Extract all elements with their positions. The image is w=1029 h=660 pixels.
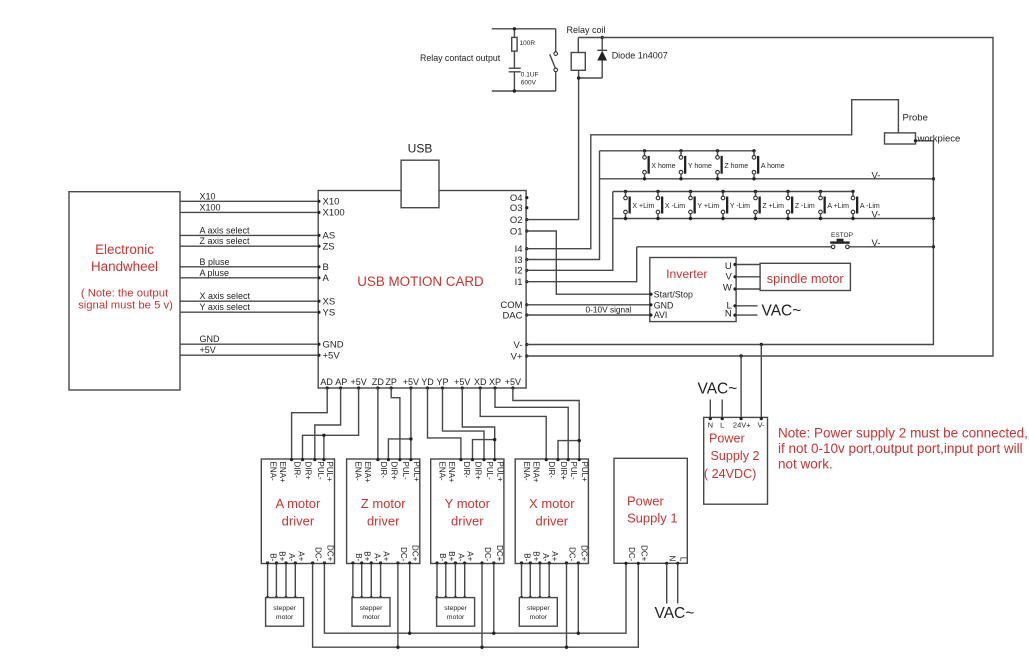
- svg-text:AP: AP: [335, 377, 347, 387]
- svg-text:XD: XD: [474, 377, 487, 387]
- svg-text:motor: motor: [362, 614, 380, 621]
- card right pin labels: [500, 193, 523, 362]
- svg-text:ENA+: ENA+: [363, 462, 372, 483]
- svg-text:not work.: not work.: [778, 457, 833, 472]
- svg-text:N: N: [725, 309, 732, 320]
- svg-text:Power: Power: [627, 494, 665, 509]
- USB connector: [401, 160, 439, 208]
- svg-text:DAC: DAC: [502, 310, 522, 321]
- svg-text:DIR-: DIR-: [462, 462, 471, 479]
- svg-text:USB: USB: [408, 142, 433, 156]
- card bottom pin row labels AD AP +5V ZD ZP +5V YD YP +5V XD XP +5V: [320, 377, 521, 387]
- wire Y driver DC+ to rail: [493, 564, 495, 634]
- wire GND: [180, 343, 318, 345]
- svg-text:DC+: DC+: [325, 545, 334, 562]
- wire O1 to inverter Start/Stop: [526, 231, 650, 294]
- wire +5V to Z driver DIR+/PUL+: [410, 388, 412, 459]
- svg-text:A-: A-: [456, 553, 465, 561]
- wire PS1 L: [677, 563, 679, 603]
- wire V- net: [526, 141, 933, 345]
- wire N: [736, 314, 757, 316]
- svg-text:motor: motor: [276, 614, 294, 621]
- svg-text:PUL+: PUL+: [496, 462, 505, 483]
- svg-text:DC+: DC+: [495, 545, 504, 562]
- wire V+ net: [526, 38, 993, 357]
- svg-text:A: A: [323, 273, 330, 284]
- svg-text:A home: A home: [761, 163, 785, 170]
- wire bottom of relay contact: [492, 90, 556, 92]
- svg-text:Supply 2: Supply 2: [711, 449, 760, 463]
- wire PS2 24V+ to V+: [740, 356, 742, 417]
- svg-text:+5V: +5V: [200, 345, 216, 355]
- svg-text:AD: AD: [320, 377, 333, 387]
- wire X10: [180, 200, 318, 202]
- svg-text:if not 0-10v port,output port,: if not 0-10v port,output port,input port…: [778, 441, 1023, 456]
- label: red note: [778, 426, 1028, 472]
- svg-text:Z motor: Z motor: [361, 496, 406, 511]
- motor driver X: [515, 458, 589, 565]
- svg-text:+5V: +5V: [505, 377, 521, 387]
- svg-text:Z home: Z home: [724, 163, 748, 170]
- wire DC+ rail (upper): [324, 563, 626, 633]
- svg-text:ENA+: ENA+: [447, 462, 456, 483]
- svg-text:driver: driver: [536, 514, 569, 529]
- junction dot PS2 V- on V-: [760, 343, 763, 346]
- resistor 100R: [512, 29, 536, 51]
- wire X driver DC+ to rail: [577, 564, 579, 634]
- svg-text:VAC~: VAC~: [655, 605, 695, 622]
- card left pin dots: [317, 200, 320, 357]
- svg-text:24V+: 24V+: [733, 420, 751, 429]
- spindle motor: [760, 263, 850, 290]
- svg-text:B+: B+: [447, 551, 456, 561]
- svg-text:100R: 100R: [520, 40, 536, 47]
- svg-text:DIR-: DIR-: [293, 462, 302, 479]
- node junction dots on snubber branch: [513, 27, 516, 30]
- svg-text:V: V: [725, 271, 732, 282]
- switch Y home: [679, 149, 712, 180]
- wire PS2 N: [709, 400, 711, 418]
- wire ZD to Z driver DIR-: [377, 388, 379, 459]
- wire X100: [180, 211, 318, 213]
- switch Y +Lim: [689, 190, 720, 220]
- svg-text:B-: B-: [354, 553, 363, 561]
- svg-text:A pluse: A pluse: [200, 268, 230, 278]
- motor driver Y: [431, 458, 505, 565]
- svg-text:GND: GND: [323, 339, 344, 350]
- svg-text:( Note: the output: ( Note: the output: [81, 288, 169, 300]
- svg-text:driver: driver: [367, 514, 400, 529]
- svg-text:V-: V-: [872, 238, 881, 249]
- svg-text:workpiece: workpiece: [917, 134, 961, 145]
- svg-text:DIR+: DIR+: [304, 462, 313, 481]
- wire +5V: [180, 354, 318, 356]
- svg-text:DC-: DC-: [627, 547, 636, 562]
- wire I1 to ESTOP: [526, 247, 637, 282]
- svg-text:X home: X home: [651, 163, 675, 170]
- wire ZP to Z driver PUL-: [391, 388, 400, 459]
- svg-text:A +Lim: A +Lim: [827, 203, 849, 210]
- svg-text:A-: A-: [372, 553, 381, 561]
- svg-text:Note: Power supply 2 must be c: Note: Power supply 2 must be connected,: [778, 426, 1028, 441]
- svg-text:PUL+: PUL+: [412, 462, 421, 483]
- svg-text:Y +Lim: Y +Lim: [697, 203, 719, 210]
- svg-text:Z -Lim: Z -Lim: [795, 203, 815, 210]
- wire X axis select: [180, 300, 318, 302]
- wire home row top rail: [600, 150, 755, 152]
- svg-text:L: L: [679, 557, 688, 562]
- svg-text:0-10V signal: 0-10V signal: [586, 305, 632, 315]
- svg-text:USB MOTION CARD: USB MOTION CARD: [357, 274, 484, 289]
- workpiece block: [885, 133, 916, 144]
- switch A +Lim: [819, 190, 849, 220]
- wire PS1 N: [666, 563, 668, 603]
- svg-text:600V: 600V: [521, 80, 537, 87]
- svg-text:A+: A+: [550, 551, 559, 561]
- svg-text:B-: B-: [269, 553, 278, 561]
- svg-text:Power: Power: [709, 432, 745, 446]
- wire Y axis select: [180, 311, 318, 313]
- svg-text:DC-: DC-: [314, 547, 323, 562]
- svg-text:ENA-: ENA-: [268, 462, 277, 481]
- junction dot PS2 24V+ on V+: [739, 354, 742, 357]
- wire +5V to A driver DIR+/PUL+: [303, 388, 359, 459]
- svg-text:N: N: [708, 420, 713, 429]
- junction dot relay coil bottom node: [577, 76, 580, 79]
- wire PS2 L: [721, 400, 723, 418]
- wire V: [736, 276, 760, 278]
- svg-text:0.1UF: 0.1UF: [521, 72, 539, 79]
- motor driver A: [261, 458, 334, 565]
- svg-text:V-: V-: [872, 210, 881, 221]
- svg-text:I1: I1: [515, 277, 523, 288]
- stepper motor (X axis) wires: [520, 564, 551, 600]
- svg-text:A+: A+: [466, 551, 475, 561]
- inverter pin dots: [649, 263, 736, 317]
- svg-text:GND: GND: [654, 300, 674, 310]
- svg-text:Relay coil: Relay coil: [567, 25, 606, 35]
- motor driver Z: [347, 458, 421, 565]
- svg-text:Y axis select: Y axis select: [200, 302, 251, 312]
- wire Z axis select: [180, 245, 318, 247]
- svg-text:Y motor: Y motor: [445, 496, 491, 511]
- diode D1 1n4007: [579, 38, 608, 79]
- wire DAC to inverter AVI (0-10V signal): [526, 314, 650, 316]
- wire XP to X driver PUL-: [495, 388, 568, 459]
- svg-text:O3: O3: [510, 203, 523, 214]
- wire L: [736, 305, 757, 307]
- relay contact switch: [550, 29, 558, 91]
- wire A pluse: [180, 277, 318, 279]
- svg-text:DIR+: DIR+: [389, 462, 398, 481]
- svg-text:motor: motor: [530, 614, 548, 621]
- svg-text:W: W: [723, 283, 732, 294]
- wire +5V to Y driver DIR+/PUL+: [462, 388, 494, 459]
- svg-text:X +Lim: X +Lim: [632, 203, 654, 210]
- wire PS2 V- to V-: [760, 345, 762, 418]
- svg-text:DC-: DC-: [483, 547, 492, 562]
- svg-text:X motor: X motor: [529, 496, 575, 511]
- stepper motor (X axis): [519, 598, 557, 627]
- wire YP to Y driver PUL-: [443, 388, 485, 459]
- wire Z driver DC- to rail: [397, 564, 399, 648]
- svg-text:DC+: DC+: [579, 545, 588, 562]
- svg-text:XS: XS: [323, 296, 336, 307]
- svg-text:A+: A+: [296, 551, 305, 561]
- svg-text:ZS: ZS: [323, 241, 335, 252]
- svg-text:X10: X10: [200, 191, 216, 201]
- svg-text:GND: GND: [200, 334, 221, 344]
- switch A home: [752, 149, 785, 180]
- svg-text:Y -Lim: Y -Lim: [730, 203, 750, 210]
- svg-text:stepper: stepper: [527, 605, 550, 612]
- svg-text:YD: YD: [421, 377, 434, 387]
- wire AP to A driver PUL-: [315, 388, 341, 459]
- wire Z driver DC+ to rail: [409, 564, 411, 634]
- wire AD to A driver DIR-: [292, 388, 328, 459]
- svg-text:( 24VDC): ( 24VDC): [704, 467, 756, 481]
- svg-text:Z axis select: Z axis select: [200, 236, 251, 246]
- capacitor 0.1UF 600V: [509, 51, 539, 91]
- svg-text:B-: B-: [523, 553, 532, 561]
- svg-text:I4: I4: [515, 244, 523, 255]
- svg-text:DIR+: DIR+: [474, 462, 483, 481]
- svg-text:X100: X100: [200, 202, 221, 212]
- switch X home: [643, 149, 676, 180]
- wire top of relay contact: [492, 28, 556, 30]
- junction dot diode top on V+ rail: [601, 36, 604, 39]
- wire X driver DC- to rail: [566, 564, 568, 648]
- svg-text:Start/Stop: Start/Stop: [654, 290, 693, 300]
- svg-text:DC-: DC-: [568, 547, 577, 562]
- svg-text:X100: X100: [323, 208, 345, 219]
- svg-text:AS: AS: [323, 231, 336, 242]
- svg-text:B pluse: B pluse: [200, 257, 230, 267]
- card left pin labels: [323, 196, 345, 361]
- stepper motor (Z axis): [352, 598, 390, 627]
- wire +5V to X driver DIR+/PUL+: [513, 388, 579, 459]
- svg-text:XP: XP: [489, 377, 501, 387]
- svg-text:Relay contact output: Relay contact output: [420, 53, 501, 63]
- wire home row bottom rail (V-): [600, 178, 934, 180]
- svg-text:B+: B+: [277, 551, 286, 561]
- svg-text:B: B: [323, 262, 329, 273]
- svg-text:PUL+: PUL+: [325, 462, 334, 483]
- svg-text:DIR-: DIR-: [379, 462, 388, 479]
- svg-text:Y home: Y home: [688, 163, 712, 170]
- svg-text:O1: O1: [510, 226, 523, 237]
- PS2 pin dots: [709, 417, 763, 420]
- svg-text:ENA+: ENA+: [532, 462, 541, 483]
- svg-text:X axis select: X axis select: [200, 291, 251, 301]
- stepper motor (A axis) wires: [266, 564, 297, 600]
- svg-text:ENA-: ENA-: [522, 462, 531, 481]
- svg-text:V-: V-: [514, 340, 523, 351]
- wire I2 to limit switch row: [526, 192, 613, 271]
- switch Z -Lim: [786, 190, 815, 220]
- svg-text:Supply 1: Supply 1: [627, 511, 678, 526]
- svg-text:DC+: DC+: [411, 545, 420, 562]
- svg-text:Diode 1n4007: Diode 1n4007: [612, 51, 668, 61]
- card right pin dots: [525, 196, 528, 358]
- svg-text:+5V: +5V: [454, 377, 470, 387]
- stepper motor (Z axis) wires: [351, 564, 382, 600]
- svg-text:B+: B+: [363, 551, 372, 561]
- svg-text:AVI: AVI: [654, 310, 668, 320]
- switch X -Lim: [656, 190, 685, 220]
- svg-text:DIR+: DIR+: [559, 462, 568, 481]
- svg-text:YP: YP: [436, 377, 448, 387]
- svg-text:U: U: [725, 261, 732, 272]
- switch ESTOP: [830, 232, 853, 249]
- svg-text:A-: A-: [287, 553, 296, 561]
- wire I1/ESTOP rail to V-: [637, 246, 832, 248]
- svg-text:ENA-: ENA-: [354, 462, 363, 481]
- switch Z +Lim: [754, 190, 784, 220]
- switch Z home: [716, 149, 749, 180]
- svg-text:PUL+: PUL+: [580, 462, 589, 483]
- wire DC- rail (lower): [313, 563, 639, 647]
- svg-text:driver: driver: [282, 514, 315, 529]
- svg-text:ZP: ZP: [385, 377, 397, 387]
- wire I4 to probe: [526, 100, 898, 249]
- svg-text:DC-: DC-: [399, 547, 408, 562]
- svg-text:PUL-: PUL-: [485, 462, 494, 481]
- svg-text:O2: O2: [510, 215, 523, 226]
- card bottom pin dots: [326, 386, 515, 389]
- svg-text:DIR-: DIR-: [547, 462, 556, 479]
- svg-text:I3: I3: [515, 255, 523, 266]
- svg-text:V+: V+: [511, 351, 523, 362]
- svg-text:X10: X10: [323, 196, 340, 207]
- switch X +Lim: [624, 190, 655, 220]
- svg-text:X -Lim: X -Lim: [665, 203, 685, 210]
- wire limit row bottom rail (V-): [613, 218, 934, 220]
- svg-text:Probe: Probe: [903, 113, 928, 124]
- svg-text:+5V: +5V: [350, 377, 366, 387]
- svg-text:VAC~: VAC~: [698, 381, 738, 398]
- svg-text:A axis select: A axis select: [200, 225, 251, 235]
- svg-text:DC+: DC+: [639, 545, 648, 562]
- svg-text:A-: A-: [541, 553, 550, 561]
- svg-text:motor: motor: [447, 614, 465, 621]
- svg-text:YS: YS: [323, 307, 336, 318]
- svg-text:B+: B+: [531, 551, 540, 561]
- wire COM to inverter GND: [526, 304, 650, 306]
- svg-text:Z +Lim: Z +Lim: [762, 203, 784, 210]
- svg-text:stepper: stepper: [360, 605, 383, 612]
- svg-text:PUL-: PUL-: [569, 462, 578, 481]
- svg-text:I2: I2: [515, 266, 523, 277]
- svg-text:signal must be 5 v): signal must be 5 v): [78, 300, 173, 312]
- svg-text:+5V: +5V: [323, 350, 341, 361]
- switch A -Lim: [851, 190, 880, 220]
- wire A axis select: [180, 234, 318, 236]
- svg-text:stepper: stepper: [273, 605, 296, 612]
- wire YD to Y driver DIR-: [428, 388, 461, 459]
- wire B pluse: [180, 266, 318, 268]
- stepper motor (Y axis): [437, 598, 475, 627]
- wire I3 to home switch row: [526, 151, 599, 260]
- svg-text:Inverter: Inverter: [666, 267, 707, 281]
- svg-text:ZD: ZD: [372, 377, 384, 387]
- svg-text:ENA+: ENA+: [278, 462, 287, 483]
- handwheel wire labels: [200, 191, 251, 355]
- svg-text:B-: B-: [438, 553, 447, 561]
- svg-text:N: N: [668, 556, 677, 562]
- wire W: [736, 288, 760, 290]
- stepper motor (A axis): [266, 598, 304, 627]
- junction dots V- vertical at switch rails: [932, 177, 935, 180]
- wire O2 to relay coil: [526, 219, 579, 221]
- svg-text:A+: A+: [382, 551, 391, 561]
- junction dot workpiece to V-: [914, 139, 917, 142]
- svg-text:driver: driver: [451, 514, 484, 529]
- svg-text:VAC~: VAC~: [762, 303, 802, 320]
- svg-text:V-: V-: [872, 170, 881, 181]
- switch Y -Lim: [721, 190, 750, 220]
- svg-text:A motor: A motor: [276, 496, 321, 511]
- wire XD to X driver DIR-: [480, 388, 546, 459]
- svg-text:spindle motor: spindle motor: [767, 271, 845, 286]
- svg-text:stepper: stepper: [444, 605, 467, 612]
- stepper motor (Y axis) wires: [435, 564, 466, 600]
- svg-text:V-: V-: [757, 420, 765, 429]
- svg-text:ESTOP: ESTOP: [831, 232, 853, 239]
- svg-text:ENA-: ENA-: [438, 462, 447, 481]
- svg-text:Electronic: Electronic: [95, 242, 154, 257]
- svg-text:Handwheel: Handwheel: [91, 259, 158, 274]
- wire Y driver DC- to rail: [481, 564, 483, 648]
- svg-text:PUL-: PUL-: [401, 462, 410, 481]
- svg-text:+5V: +5V: [403, 377, 419, 387]
- wire limit row top rail: [613, 191, 853, 193]
- relay coil K1: [571, 38, 585, 220]
- svg-text:PUL-: PUL-: [316, 462, 325, 481]
- wire U: [736, 264, 760, 266]
- svg-text:L: L: [720, 420, 724, 429]
